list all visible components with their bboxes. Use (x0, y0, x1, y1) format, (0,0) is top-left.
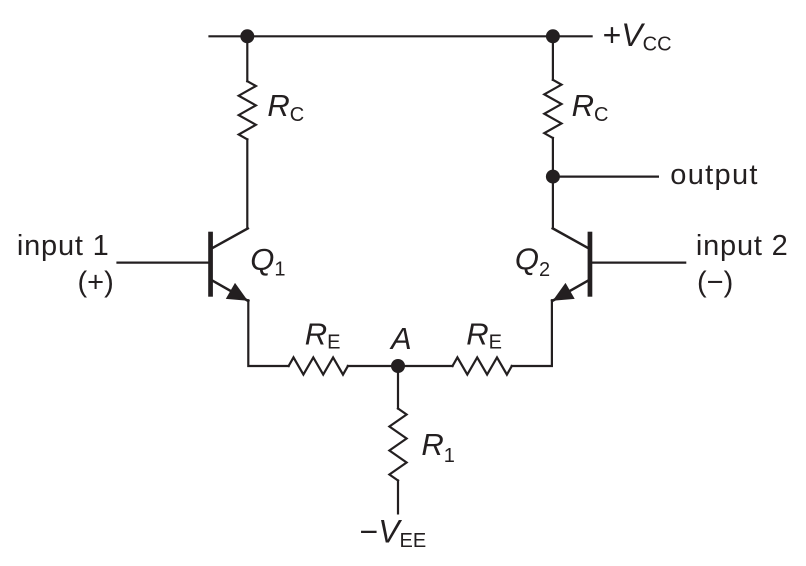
wire: RC right down through output node to Q2 collector (552, 138, 554, 228)
svg-text:RC: RC (267, 88, 304, 126)
svg-text:−VEE: −VEE (360, 513, 427, 552)
svg-text:A: A (389, 321, 412, 356)
resistor R1 (389, 409, 406, 481)
resistor RC (left) (239, 81, 256, 139)
transistor Q1 base bar (208, 232, 213, 297)
resistor RE (right) (453, 357, 512, 374)
svg-text:Q2: Q2 (515, 241, 550, 281)
wire: output tap (553, 176, 658, 178)
transistor Q2 emitter arrow (553, 283, 575, 301)
svg-text:RC: RC (572, 88, 609, 126)
svg-text:R1: R1 (421, 427, 455, 467)
node: rail junction dot (left) (240, 29, 254, 43)
transistor Q1 collector lead (213, 228, 248, 247)
node A dot (391, 359, 405, 373)
svg-text:RE: RE (466, 316, 502, 353)
node: output junction dot (546, 170, 560, 184)
transistor Q2 emitter lead (552, 281, 588, 301)
wire: Q2 base to input 2 (592, 262, 685, 264)
node: rail junction dot (right) (546, 29, 560, 43)
wire: input 1 to Q1 base (118, 262, 209, 264)
wire: node A to RE right (398, 365, 453, 367)
svg-text:output: output (670, 159, 758, 191)
wire: R1 to -VEE terminal (397, 481, 399, 514)
wire: +VCC supply rail (210, 35, 592, 37)
svg-text:input 1: input 1 (17, 230, 110, 262)
svg-text:input 2: input 2 (696, 230, 789, 262)
transistor Q2 collector lead (553, 228, 588, 247)
wire: node A to R1 (397, 366, 399, 409)
svg-text:+VCC: +VCC (603, 17, 672, 56)
wire: rail to RC (right) (552, 36, 554, 80)
resistor RC (right) (544, 80, 561, 138)
svg-text:Q1: Q1 (250, 242, 285, 281)
transistor Q1 emitter lead (213, 281, 249, 301)
transistor Q2 base bar (588, 232, 593, 297)
wire: rail to RC (left) (246, 36, 248, 81)
svg-text:(+): (+) (78, 266, 114, 298)
resistor RE (left) (289, 357, 348, 374)
wire: Q1 emitter down to node row (248, 300, 288, 366)
svg-text:RE: RE (305, 316, 341, 353)
transistor Q1 emitter arrow (226, 283, 248, 301)
svg-text:(−): (−) (697, 266, 733, 298)
wire: RC left to Q1 collector (246, 139, 248, 228)
wire: RE left to node A (348, 365, 398, 367)
wire: RE right up to Q2 emitter (512, 300, 552, 366)
